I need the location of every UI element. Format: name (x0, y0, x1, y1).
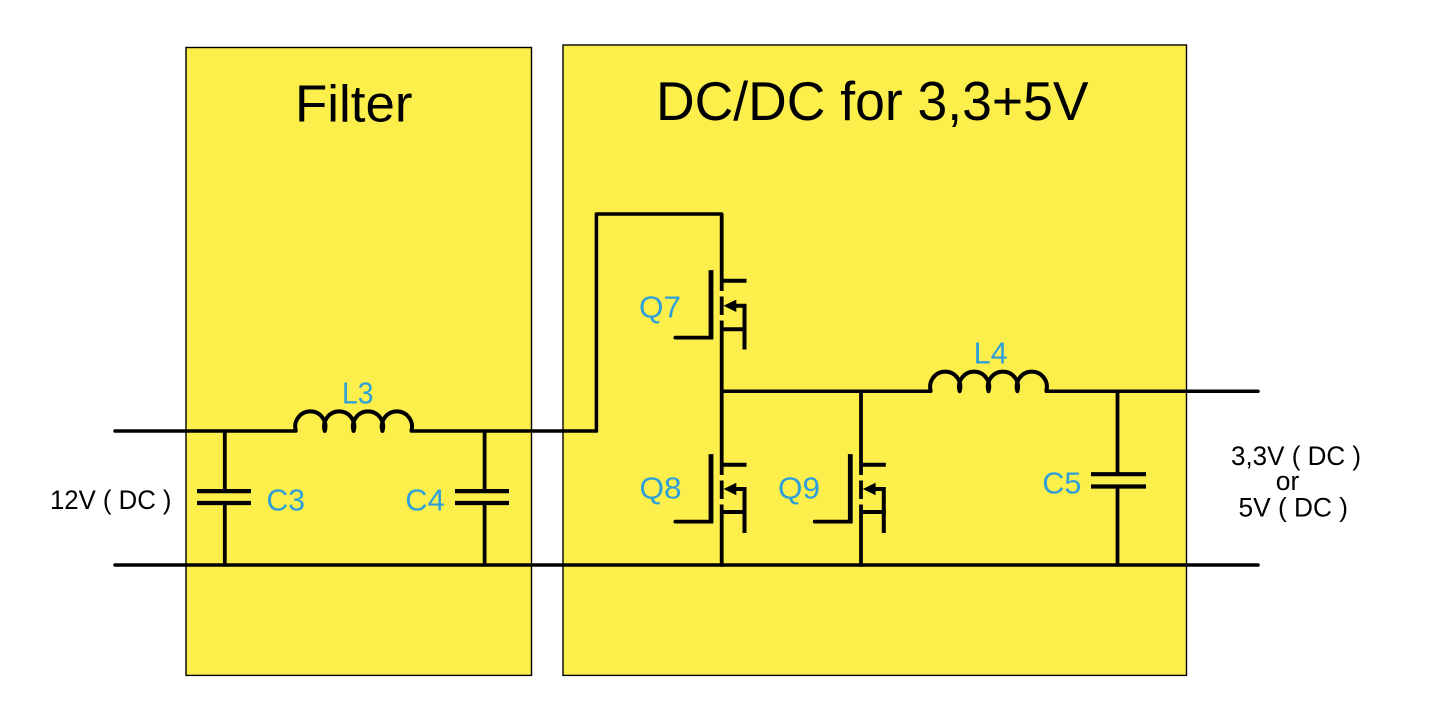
wire Q9 vertical chain with channel gaps (859, 391, 863, 567)
title DC/DC for 3,3+5V (656, 70, 1089, 132)
label 3,3V ( DC ) output line 1 (1231, 441, 1361, 471)
wire ground bus (115, 563, 1258, 567)
wire switch node to output (722, 389, 1258, 393)
label L3 (342, 376, 373, 411)
label L4 (974, 336, 1008, 371)
capacitor C4 (455, 431, 509, 565)
wire top input bus 12V (115, 429, 596, 433)
label 12V ( DC ) input (50, 485, 172, 515)
title Filter (295, 76, 413, 134)
label C5 (1042, 466, 1081, 501)
capacitor C3 (197, 431, 251, 565)
label Q7 (639, 290, 681, 325)
svg-text:C3: C3 (267, 483, 306, 518)
wire Q7-Q8 vertical chain with channel gaps (720, 214, 724, 567)
svg-text:Q7: Q7 (639, 290, 681, 325)
label Q8 (640, 471, 682, 506)
transistor Q7 (675, 270, 746, 349)
inductor L3 (295, 411, 412, 431)
svg-text:C5: C5 (1042, 466, 1081, 501)
svg-text:Filter: Filter (295, 76, 413, 134)
svg-text:L3: L3 (342, 376, 373, 411)
svg-text:L4: L4 (974, 336, 1008, 371)
wire riser to Q7 drain (596, 214, 721, 431)
transistor Q8 (675, 454, 746, 533)
capacitor C5 (1091, 391, 1146, 565)
transistor Q9 (815, 454, 886, 533)
label 5V ( DC ) output line 3 (1239, 493, 1349, 523)
inductor L4 (930, 372, 1047, 392)
svg-text:C4: C4 (405, 483, 445, 518)
svg-text:5V ( DC ): 5V ( DC ) (1239, 493, 1349, 523)
svg-text:or: or (1276, 466, 1300, 496)
label C3 (267, 483, 306, 518)
label or output line 2 (1276, 466, 1300, 496)
svg-text:12V ( DC ): 12V ( DC ) (50, 485, 172, 515)
svg-text:Q8: Q8 (640, 471, 682, 506)
filter block background (186, 48, 532, 676)
dc/dc block background (563, 45, 1187, 675)
label C4 (405, 483, 445, 518)
label Q9 (778, 471, 820, 506)
svg-text:Q9: Q9 (778, 471, 820, 506)
svg-text:DC/DC for 3,3+5V: DC/DC for 3,3+5V (656, 70, 1089, 132)
